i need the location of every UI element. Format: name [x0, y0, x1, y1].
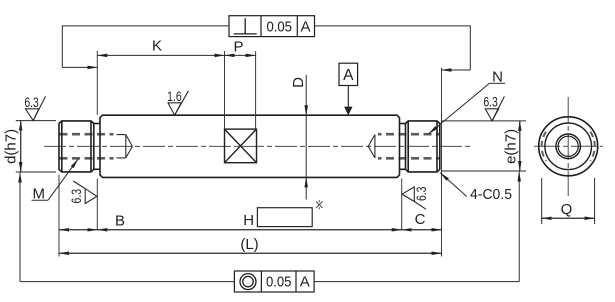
- undercut groove right: [400, 124, 406, 170]
- dimension K: [97, 54, 224, 56]
- svg-text:A: A: [300, 18, 310, 35]
- shaft main body: [100, 115, 400, 177]
- top FCF left leader: [62, 26, 229, 68]
- extension line right groove (H/C): [401, 179, 403, 230]
- datum A leader + filled triangle: [347, 86, 349, 107]
- extension line left face: [58, 175, 60, 257]
- dimension e(h7): [442, 121, 527, 171]
- dimension P: [225, 54, 256, 56]
- svg-text:D: D: [290, 77, 307, 88]
- svg-text:1.6: 1.6: [167, 89, 182, 104]
- top feature control frame (perpendicularity 0.05 A): [229, 16, 315, 37]
- dimension D: [305, 75, 307, 200]
- end view thread dashed arcs: [542, 132, 595, 161]
- surface finish 1.6 on body: [168, 91, 189, 116]
- concentricity symbol: [240, 274, 256, 290]
- extension lines P / keyway: [225, 51, 256, 129]
- svg-text:A: A: [300, 274, 310, 291]
- dimension C: [402, 229, 442, 231]
- shaft outline: right threaded end: [406, 121, 440, 172]
- svg-text:K: K: [152, 38, 162, 55]
- bottom FCF left leader to d dimension: [20, 173, 234, 282]
- center-drill cone right: [368, 135, 375, 158]
- svg-text:6.3: 6.3: [69, 189, 84, 204]
- svg-text:4-C0.5: 4-C0.5: [470, 187, 512, 203]
- extension line right face: [441, 68, 443, 257]
- end view outer circle (body): [539, 117, 598, 176]
- svg-text:B: B: [115, 213, 125, 230]
- bottom FCF right leader to e dimension: [314, 172, 519, 282]
- svg-text:6.3: 6.3: [24, 95, 39, 110]
- dimension Q: [542, 178, 595, 224]
- top FCF right leader: [315, 26, 471, 70]
- reference mark: [316, 200, 323, 209]
- end view center hole circles: [556, 134, 581, 159]
- label M with leader: [32, 159, 79, 200]
- surface finish 6.3 rotated left (on B extension): [73, 181, 97, 204]
- datum A box: [339, 63, 358, 85]
- surface finish 6.3 top-right: [485, 96, 504, 121]
- svg-text:0.05: 0.05: [266, 274, 292, 291]
- svg-text:(L): (L): [240, 236, 258, 253]
- end view crosshair: [534, 97, 603, 196]
- svg-text:A: A: [343, 67, 354, 84]
- svg-text:6.3: 6.3: [414, 187, 429, 202]
- shaft outline: left threaded end: [59, 121, 94, 172]
- label 4-C0.5 with leader: [440, 173, 467, 197]
- surface finish 6.3 rotated right (on C extension): [402, 187, 426, 209]
- surface finish 6.3 top-left: [25, 96, 45, 120]
- svg-text:M: M: [33, 185, 46, 202]
- H value box: [257, 208, 312, 227]
- undercut groove left: [94, 124, 100, 170]
- svg-text:H: H: [243, 212, 254, 229]
- svg-text:6.3: 6.3: [483, 95, 498, 110]
- hidden center-drill hole right: [378, 134, 440, 158]
- svg-text:P: P: [233, 39, 243, 56]
- end view groove circle: [545, 123, 592, 170]
- bottom feature control frame (concentricity 0.05 A): [234, 271, 314, 292]
- center line (front view axis): [44, 145, 470, 147]
- svg-text:N: N: [492, 68, 503, 85]
- extension line left groove (K/B/H): [96, 51, 98, 230]
- keyway cross box on body: [225, 129, 257, 163]
- dimension H: [97, 229, 401, 231]
- svg-text:d(h7): d(h7): [3, 129, 20, 164]
- svg-text:C: C: [415, 211, 426, 228]
- svg-text:e(h7): e(h7): [503, 129, 520, 164]
- svg-text:0.05: 0.05: [266, 18, 292, 35]
- svg-text:Q: Q: [561, 201, 573, 218]
- center-drill cone left: [117, 135, 133, 158]
- dimension (L): [59, 252, 442, 254]
- hidden center-drill hole left: [60, 134, 114, 158]
- dimension d(h7): [16, 121, 56, 172]
- label N with leader: [429, 83, 505, 134]
- dimension B: [59, 229, 97, 231]
- perpendicularity symbol: [234, 18, 257, 34]
